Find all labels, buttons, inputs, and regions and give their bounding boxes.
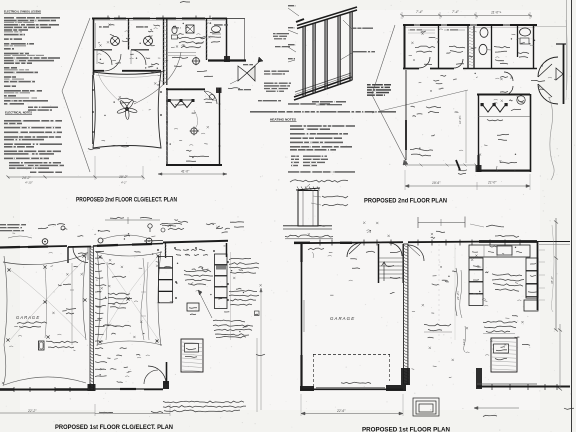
- svg-text:HEATING NOTES: HEATING NOTES: [270, 118, 296, 122]
- svg-text:PROPOSED 2nd FLOOR CLG/ELECT.: PROPOSED 2nd FLOOR CLG/ELECT. PLAN: [76, 196, 177, 203]
- svg-text:21'-0": 21'-0": [487, 181, 497, 185]
- svg-text:16'-9½: 16'-9½: [458, 115, 462, 124]
- svg-text:G A R A G E: G A R A G E: [16, 315, 39, 320]
- svg-text:22'-6": 22'-6": [336, 409, 346, 413]
- svg-text:PROPOSED 1st FLOOR PLAN: PROPOSED 1st FLOOR PLAN: [362, 427, 450, 432]
- svg-text:19'-2": 19'-2": [119, 175, 128, 179]
- svg-text:G A R A G E: G A R A G E: [330, 316, 354, 321]
- svg-text:7'-4": 7'-4": [452, 10, 460, 14]
- svg-text:ELECTRICAL SYMBOL LEGEND: ELECTRICAL SYMBOL LEGEND: [4, 10, 41, 14]
- svg-text:PROPOSED 2nd FLOOR PLAN: PROPOSED 2nd FLOOR PLAN: [364, 198, 447, 205]
- svg-text:24'-2": 24'-2": [21, 176, 31, 180]
- svg-text:PROPOSED 1st FLOOR CLG/ELECT.: PROPOSED 1st FLOOR CLG/ELECT. PLAN: [55, 424, 173, 431]
- svg-text:7'-4": 7'-4": [416, 10, 424, 14]
- svg-text:ELECTRICAL NOTES: ELECTRICAL NOTES: [5, 111, 32, 115]
- svg-text:41'-0": 41'-0": [181, 170, 190, 174]
- svg-text:4'-10": 4'-10": [25, 181, 34, 185]
- svg-text:22'-2": 22'-2": [27, 409, 37, 413]
- svg-text:24'-3½: 24'-3½: [456, 291, 460, 301]
- svg-text:19'-6": 19'-6": [432, 181, 441, 185]
- svg-text:11'-0"+: 11'-0"+: [491, 11, 501, 15]
